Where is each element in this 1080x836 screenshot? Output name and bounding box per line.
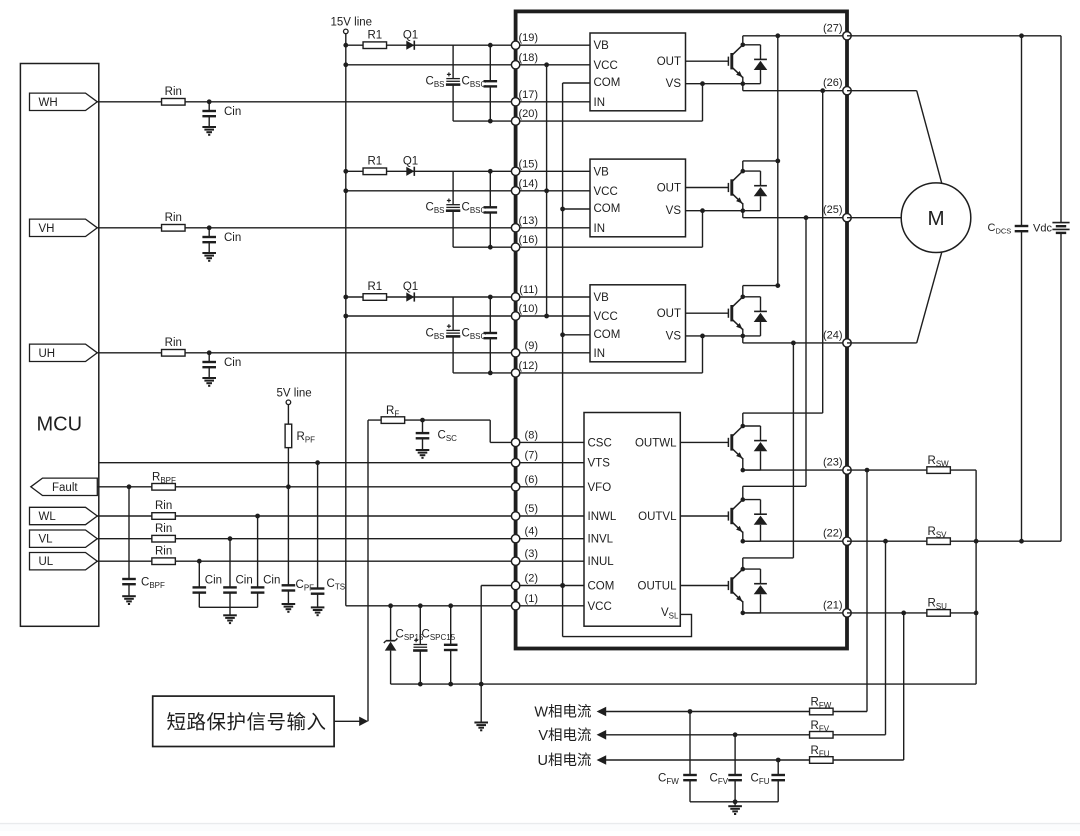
svg-text:Q1: Q1 <box>403 281 418 293</box>
svg-text:(17): (17) <box>518 89 538 101</box>
capacitor CSPC15 lead <box>450 606 452 645</box>
svg-text:(3): (3) <box>525 548 538 560</box>
capacitor CBS (V) <box>446 204 460 206</box>
pin (7) terminal <box>511 459 519 467</box>
resistor RFU <box>810 757 834 764</box>
wire motor lead U diagonal <box>917 252 942 343</box>
capacitor CBS (W) <box>446 78 460 80</box>
diode Q1 (W bootstrap) <box>406 41 414 50</box>
wire COM stub V <box>563 208 590 210</box>
wire P bus vertical <box>777 36 779 286</box>
wire VCC row pin (U) <box>346 315 590 317</box>
transistor Q-WH (high W IGBT) <box>728 36 767 91</box>
capacitor CBS (V) lead <box>452 171 454 204</box>
wire OUT gate lead (U) <box>686 312 729 314</box>
resistor RBPF (fault line) <box>152 484 176 491</box>
resistor Rin (VH line) <box>162 225 186 232</box>
svg-text:VB: VB <box>594 166 610 178</box>
ground (main) <box>474 722 488 724</box>
svg-text:15V line: 15V line <box>331 17 373 29</box>
wire main ground stub <box>480 684 482 722</box>
svg-text:OUT: OUT <box>657 183 681 195</box>
pin (8) terminal <box>511 438 519 446</box>
wire COM stub U <box>563 334 590 336</box>
capacitor Cin (UH) <box>202 361 216 363</box>
svg-text:VCC: VCC <box>594 311 618 323</box>
capacitor Cin (UH) lead <box>208 353 210 362</box>
svg-text:(13): (13) <box>518 215 538 227</box>
svg-text:COM: COM <box>588 581 615 593</box>
svg-text:5V line: 5V line <box>277 388 312 400</box>
svg-text:OUT: OUT <box>657 56 681 68</box>
svg-text:IN: IN <box>594 348 606 360</box>
capacitor Cin (VH) <box>202 236 216 238</box>
node phase V tap <box>804 215 809 220</box>
node CBSC top (U) <box>488 295 493 300</box>
svg-text:(27): (27) <box>823 22 843 34</box>
node COM bus V <box>560 207 565 212</box>
svg-text:VS: VS <box>666 205 682 217</box>
svg-text:Rin: Rin <box>165 212 182 224</box>
wire VL row to pin 4 <box>97 538 585 540</box>
wire VH row to pin 13 <box>97 227 591 229</box>
wire internal COM bus <box>562 83 564 637</box>
wire CF bus ground stub <box>734 802 736 806</box>
node VCC bus W <box>544 62 549 67</box>
svg-text:VS: VS <box>666 78 682 90</box>
resistor RF <box>381 417 405 424</box>
svg-text:CSC: CSC <box>588 437 612 449</box>
capacitor CFW lead <box>689 712 691 776</box>
svg-text:VH: VH <box>39 223 55 235</box>
wire VCC row pin (V) <box>346 190 590 192</box>
svg-text:UH: UH <box>39 348 56 360</box>
svg-text:COM: COM <box>594 329 621 341</box>
wire VTS row to pin 7 <box>99 462 584 464</box>
svg-text:INWL: INWL <box>588 511 617 523</box>
node Cin tap (VL) <box>228 536 233 541</box>
MCU input tag Fault <box>31 478 98 495</box>
wire V collector rail <box>743 160 778 162</box>
capacitor CBS (W) lead <box>452 45 454 78</box>
svg-text:(14): (14) <box>518 178 538 190</box>
svg-text:WH: WH <box>39 97 58 109</box>
node CDCS top <box>1019 33 1024 38</box>
pin (12) terminal <box>511 369 519 377</box>
capacitor CBSC (V) <box>484 206 498 208</box>
svg-text:(12): (12) <box>518 360 538 372</box>
node COM bus low <box>560 583 565 588</box>
node Cin tap (UL) <box>197 559 202 564</box>
ground (Cin UH) <box>202 377 216 379</box>
transistor Q-UH (high U IGBT) <box>728 286 767 343</box>
arrow V-phase current output <box>597 730 607 740</box>
node CBSC bottom (W) <box>488 119 493 124</box>
svg-text:VCC: VCC <box>594 186 618 198</box>
pin (22) terminal <box>843 537 851 545</box>
node VCC bus V <box>544 188 549 193</box>
svg-text:(26): (26) <box>823 77 843 89</box>
capacitor CFW <box>683 774 697 776</box>
pin (11) terminal <box>511 293 519 301</box>
wire VS lead (U) <box>686 335 743 337</box>
node gnd main <box>479 682 484 687</box>
capacitor CFU lead <box>777 760 779 775</box>
capacitor CFV lead <box>734 735 736 775</box>
node COM bus U <box>560 332 565 337</box>
wire VS pin row (V) <box>453 246 702 248</box>
node CSP15 tap <box>418 603 423 608</box>
node CBSC bottom (V) <box>488 245 493 250</box>
svg-text:(20): (20) <box>518 108 538 120</box>
wire RF vertical <box>367 420 369 721</box>
MCU output tag VH <box>30 219 98 236</box>
resistor Rin (WL line) <box>152 513 176 520</box>
motor M <box>901 183 971 253</box>
svg-text:(19): (19) <box>518 32 538 44</box>
svg-text:VFO: VFO <box>588 482 612 494</box>
svg-text:Cin: Cin <box>224 106 241 118</box>
node zener tap <box>388 603 393 608</box>
resistor Rin (UL line) <box>152 558 176 565</box>
arrow U-phase current output <box>597 755 607 765</box>
pin (14) terminal <box>511 187 519 195</box>
svg-text:(18): (18) <box>518 52 538 64</box>
resistor Rin (VL line) <box>152 535 176 542</box>
capacitor CBS (U) <box>446 329 460 331</box>
arrow protection input <box>359 717 368 726</box>
pin (26) terminal <box>843 87 851 95</box>
node DC- bus V <box>974 539 979 544</box>
pin (9) terminal <box>511 349 519 357</box>
wire pin22 to Vdc return <box>847 540 1061 542</box>
ground (CSC) <box>416 449 430 451</box>
node phase W tap <box>820 88 825 93</box>
pin (3) terminal <box>511 557 519 565</box>
svg-text:R1: R1 <box>367 29 382 41</box>
pin (1) terminal <box>511 602 519 610</box>
capacitor Cin (WL) <box>251 586 265 588</box>
MCU output tag WH <box>30 93 98 110</box>
svg-text:Rin: Rin <box>155 545 172 557</box>
svg-text:IN: IN <box>594 97 606 109</box>
pin (17) terminal <box>511 98 519 106</box>
svg-text:VB: VB <box>594 292 610 304</box>
pin (5) terminal <box>511 512 519 520</box>
MCU output tag UL <box>30 553 98 570</box>
zener diode D-SP <box>390 606 392 641</box>
wire pin8 jog up <box>489 420 491 442</box>
node 15V-VCC tap (V) <box>343 188 348 193</box>
node VCC bus U <box>544 314 549 319</box>
ground (Cin VH) <box>202 252 216 254</box>
capacitor Cin (UL) lead <box>198 561 200 587</box>
node CBSC top (W) <box>488 43 493 48</box>
gate driver UW (high side) <box>590 33 686 111</box>
wire phase V row <box>743 217 847 219</box>
node CBSC bottom (U) <box>488 371 493 376</box>
pin (19) terminal <box>511 41 519 49</box>
svg-text:COM: COM <box>594 77 621 89</box>
capacitor CSPC15 <box>444 644 458 646</box>
svg-text:(10): (10) <box>518 303 538 315</box>
capacitor CBSC (V) lead <box>489 171 491 207</box>
node CF bus center <box>733 799 738 804</box>
wire OUTUL gate lead <box>680 585 728 587</box>
capacitor CDCS <box>1015 225 1029 227</box>
wire UL row to pin 3 <box>97 560 585 562</box>
wire VS lead (W) <box>686 83 743 85</box>
wire internal VCC bus <box>546 65 548 316</box>
capacitor CDCS lead <box>1021 36 1023 226</box>
resistor RPF <box>285 424 292 448</box>
node 15V-VB tap (U) <box>343 295 348 300</box>
svg-text:(5): (5) <box>525 503 538 515</box>
wire VB row pin (V) <box>346 170 590 172</box>
wire phase U to motor <box>847 342 917 344</box>
wire P rail to Vdc <box>847 35 1061 37</box>
svg-text:IN: IN <box>594 223 606 235</box>
svg-text:(23): (23) <box>823 457 843 469</box>
svg-text:COM: COM <box>594 203 621 215</box>
svg-text:VL: VL <box>39 534 54 546</box>
capacitor CTS <box>311 587 325 589</box>
wire P bus top row <box>743 35 847 37</box>
wire WL row to pin 5 <box>97 515 585 517</box>
svg-text:VTS: VTS <box>588 458 611 470</box>
wire VS drop (U) <box>702 336 704 373</box>
node Cin tap (WH) <box>207 99 212 104</box>
node CSC filter <box>420 418 425 423</box>
wire phase W drop <box>822 91 824 413</box>
svg-text:(21): (21) <box>823 599 843 611</box>
short-circuit protection input box <box>153 696 334 746</box>
svg-text:U相电流: U相电流 <box>538 752 592 769</box>
node CFV tap <box>733 732 738 737</box>
capacitor CBSC (W) lead <box>489 45 491 81</box>
wire ground bus <box>391 683 977 685</box>
svg-text:OUT: OUT <box>657 308 681 320</box>
wire pin8 row <box>490 441 584 443</box>
svg-text:(22): (22) <box>823 528 843 540</box>
resistor R1 (U bootstrap) <box>363 294 387 301</box>
wire OUTWL gate lead <box>680 441 728 443</box>
wire emitter V to pin 22 <box>743 540 847 542</box>
capacitor Cin (WL) lead <box>257 516 259 587</box>
wire feedback U drop <box>903 613 905 760</box>
node gnd CSP15 <box>418 682 423 687</box>
gate driver UU (high side) <box>590 285 686 362</box>
resistor RSU <box>927 610 951 617</box>
node RPF-VFO junction <box>286 484 291 489</box>
ground (Cin group) <box>223 614 237 616</box>
wire VS drop (W) <box>702 84 704 121</box>
MCU output tag WL <box>30 507 98 524</box>
transistor Q-UL (low U IGBT) <box>728 558 767 615</box>
node DC- bus U <box>974 611 979 616</box>
ground (CTS) <box>311 606 325 608</box>
capacitor Cin (UL) <box>193 586 207 588</box>
node feedback W tap <box>865 468 870 473</box>
wire VCC row pin (W) <box>346 64 590 66</box>
wire low V collector rail <box>743 485 806 487</box>
capacitor CBS (U) lead <box>452 297 454 330</box>
pin (13) terminal <box>511 224 519 232</box>
capacitor Cin (VH) lead <box>208 228 210 237</box>
diode Q1 (V bootstrap) <box>406 167 414 176</box>
svg-text:(6): (6) <box>525 474 538 486</box>
node CDCS bottom <box>1019 539 1024 544</box>
capacitor CBSC (W) <box>484 80 498 82</box>
wire low U collector rail <box>743 557 794 559</box>
pin (27) terminal <box>843 32 851 40</box>
pin (23) terminal <box>843 466 851 474</box>
capacitor Cin (WH) <box>202 110 216 112</box>
svg-text:(9): (9) <box>525 340 538 352</box>
node CFU tap <box>776 758 781 763</box>
resistor R1 (W bootstrap) <box>363 42 387 49</box>
node VS junction (W) <box>700 81 705 86</box>
wire U collector rail <box>743 285 778 287</box>
wire low W collector rail <box>743 412 823 414</box>
capacitor Cin (WH) lead <box>208 102 210 111</box>
node VS junction (V) <box>700 208 705 213</box>
capacitor CTS lead <box>317 463 319 589</box>
wire feedback W drop <box>866 470 868 711</box>
svg-text:VCC: VCC <box>594 60 618 72</box>
svg-text:M: M <box>927 207 944 230</box>
svg-text:Q1: Q1 <box>403 156 418 168</box>
node CSPC15 tap <box>448 603 453 608</box>
MCU output tag UH <box>30 344 98 361</box>
MCU block <box>20 64 98 627</box>
resistor Rin (UH line) <box>162 350 186 357</box>
capacitor CFV <box>728 774 742 776</box>
capacitor CPF lead <box>287 487 289 586</box>
wire COM stub W <box>563 82 590 84</box>
pin (24) terminal <box>843 339 851 347</box>
capacitor CSP15 lead <box>419 606 421 645</box>
pin (20) terminal <box>511 117 519 125</box>
svg-text:Cin: Cin <box>236 574 253 586</box>
IPM module outline <box>516 11 847 648</box>
svg-text:Cin: Cin <box>224 232 241 244</box>
wire VS lead (V) <box>686 210 743 212</box>
capacitor CSP15 <box>414 644 428 646</box>
capacitor CSC lead <box>422 420 424 433</box>
wire pin2 drop <box>480 586 482 685</box>
wire phase W to motor <box>847 90 917 92</box>
node P bus V <box>775 159 780 164</box>
node phase U tap <box>791 341 796 346</box>
capacitor CBPF <box>122 578 136 580</box>
node P bus tap <box>775 33 780 38</box>
wire RPF to VFO row <box>287 448 289 487</box>
node Cin tap (VH) <box>207 225 212 230</box>
svg-text:R1: R1 <box>367 156 382 168</box>
pin (21) terminal <box>843 609 851 617</box>
svg-text:Q1: Q1 <box>403 29 418 41</box>
pin (16) terminal <box>511 243 519 251</box>
svg-text:(8): (8) <box>525 429 538 441</box>
wire pin21 to shunt <box>847 612 976 614</box>
wire OUT gate lead (V) <box>686 187 729 189</box>
svg-text:V相电流: V相电流 <box>538 727 591 744</box>
resistor RFW <box>810 708 834 715</box>
svg-text:(7): (7) <box>525 450 538 462</box>
svg-text:短路保护信号输入: 短路保护信号输入 <box>167 711 327 733</box>
wire CF common bus <box>690 801 778 803</box>
battery Vdc <box>1060 36 1062 222</box>
capacitor Cin (VL) <box>223 586 237 588</box>
wire emitter W to pin 23 <box>743 469 847 471</box>
pin (2) terminal <box>511 581 519 589</box>
svg-text:VCC: VCC <box>588 601 612 613</box>
svg-text:Rin: Rin <box>155 500 172 512</box>
wire RF row <box>368 419 490 421</box>
transistor Q-VH (high V IGBT) <box>728 161 767 218</box>
node 15V-VCC tap (W) <box>343 62 348 67</box>
wire emitter U to pin 21 <box>743 612 847 614</box>
pin (15) terminal <box>511 167 519 175</box>
wire DC- bus vertical <box>975 470 977 684</box>
svg-text:OUTVL: OUTVL <box>638 511 677 523</box>
svg-text:Vdc: Vdc <box>1033 223 1052 235</box>
resistor RSW <box>927 467 951 474</box>
pin (25) terminal <box>843 214 851 222</box>
arrow W-phase current output <box>597 707 607 717</box>
svg-text:Cin: Cin <box>224 357 241 369</box>
wire Fault row to pin 6 <box>97 486 585 488</box>
capacitor CBSC (U) <box>484 332 498 334</box>
resistor Rin (WH line) <box>162 99 186 106</box>
capacitor CPF <box>282 584 296 586</box>
capacitor CFU <box>771 774 785 776</box>
svg-text:(4): (4) <box>525 526 538 538</box>
svg-text:INUL: INUL <box>588 556 615 568</box>
svg-text:W相电流: W相电流 <box>534 704 591 721</box>
wire VB row pin (U) <box>346 296 590 298</box>
node CBSC top (V) <box>488 169 493 174</box>
transistor Q-VL (low V IGBT) <box>728 486 767 543</box>
wire phase U row <box>743 342 847 344</box>
svg-text:INVL: INVL <box>588 534 614 546</box>
terminal 5V line <box>286 400 291 405</box>
wire WH row to pin 17 <box>97 101 591 103</box>
node P bus U <box>775 283 780 288</box>
node CBPF tap <box>127 484 132 489</box>
svg-text:Rin: Rin <box>155 523 172 535</box>
terminal 15V line <box>344 29 349 34</box>
svg-text:Rin: Rin <box>165 337 182 349</box>
svg-text:Rin: Rin <box>165 86 182 98</box>
wire motor lead W diagonal <box>917 91 942 184</box>
MCU output tag VL <box>30 530 98 547</box>
gate driver UV (high side) <box>590 159 686 237</box>
node feedback V tap <box>883 539 888 544</box>
pin (4) terminal <box>511 535 519 543</box>
gate driver U4 (low side) <box>584 413 680 627</box>
wire UH row to pin 9 <box>97 352 591 354</box>
page footer rule <box>0 824 1080 831</box>
svg-text:Cin: Cin <box>205 574 222 586</box>
node gnd CSPC15 <box>448 682 453 687</box>
node COM bus pin2 <box>560 583 565 588</box>
svg-text:Cin: Cin <box>263 574 280 586</box>
ground (Cin WH) <box>202 126 216 128</box>
node 15V-VB tap (V) <box>343 169 348 174</box>
resistor RSV <box>927 538 951 545</box>
